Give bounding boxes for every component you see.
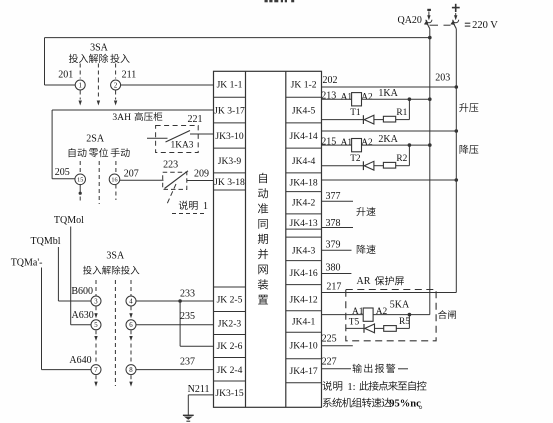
wire 377 stub <box>322 200 354 202</box>
relay coil 5KA <box>363 308 373 321</box>
contact circle 5 <box>91 320 101 330</box>
switch QA20 pole 2 <box>450 4 459 29</box>
terminal pin JK1-2 <box>291 80 317 91</box>
svg-text:1KA: 1KA <box>378 88 398 99</box>
note 1 label 说明 1 <box>172 201 208 214</box>
net label TQMa'- <box>11 257 43 268</box>
wire cabinet top edge to JK3-17 <box>52 109 213 111</box>
2SA linkage dashed lines <box>80 161 116 204</box>
ground <box>183 415 194 421</box>
wire 215 JK4-4 to coil 2KA <box>322 144 352 146</box>
contact circle 2 <box>111 80 121 90</box>
svg-text:JK4-3: JK4-3 <box>292 245 316 256</box>
svg-text:JK2-3: JK2-3 <box>218 319 242 330</box>
label 1KA <box>378 88 398 99</box>
svg-text:235: 235 <box>180 311 195 322</box>
diode T1 label <box>350 108 361 118</box>
wire diode T5 to resistor R5 <box>375 327 384 329</box>
wire 201 from top bus to contact 1 <box>45 38 76 85</box>
label 201 <box>58 70 73 81</box>
svg-text:JK3-15: JK3-15 <box>215 388 243 399</box>
wire 225 stub <box>322 345 353 347</box>
contact circle 1 <box>75 80 85 90</box>
svg-text:221: 221 <box>188 114 203 125</box>
terminal pin JK4-2 <box>292 198 316 209</box>
svg-text:379: 379 <box>326 240 341 251</box>
svg-text:N211: N211 <box>188 384 210 395</box>
bus 203 vertical <box>429 29 431 315</box>
svg-text:3AH: 3AH <box>112 112 131 123</box>
wire 380 stub <box>322 273 352 275</box>
wire diode T2 to resistor R2 <box>374 165 384 167</box>
pin label A2 of 2KA <box>361 138 373 148</box>
svg-text:217: 217 <box>326 282 341 293</box>
svg-text:7: 7 <box>94 367 98 374</box>
svg-text:JK4-14: JK4-14 <box>289 131 317 142</box>
wire cabinet left edge down <box>51 110 53 179</box>
label 2KA <box>378 134 398 145</box>
note line 2 系统机组转速达95%nc <box>323 398 422 410</box>
3SA lower arrows left <box>94 313 97 386</box>
2SA contact 15 stub and junction <box>79 184 82 203</box>
pin label A1 of 1KA <box>341 92 353 102</box>
svg-text:215: 215 <box>321 136 336 147</box>
3SA lower linkage dashed right <box>130 280 132 382</box>
contact circle 3 <box>91 296 101 306</box>
contact 1KA3 label <box>171 141 194 151</box>
svg-text:4: 4 <box>129 298 133 305</box>
label 降压 <box>460 145 479 154</box>
contact 1KA3 dashed enclosure <box>156 126 199 153</box>
terminal pin JK3-18 <box>214 177 245 188</box>
left terminal column dividers <box>214 97 246 381</box>
wire TQMol to contact 5 <box>71 227 91 325</box>
terminal pin JK4-10 <box>289 341 317 352</box>
junction JK4-18 right bus <box>455 178 459 182</box>
svg-text:JK4-12: JK4-12 <box>289 294 317 305</box>
svg-text:1: 1 <box>203 201 208 212</box>
label 降速 <box>357 245 376 254</box>
wire 202 JK1-2 to right bus <box>322 86 457 88</box>
3SA lower positions label 投入解除投入 <box>83 266 139 275</box>
svg-text:3SA: 3SA <box>106 250 125 261</box>
svg-text:JK 2-6: JK 2-6 <box>217 341 243 352</box>
terminal pin JK2-6 <box>217 341 243 352</box>
wire 209 contact to JK3-18 <box>187 180 214 182</box>
contact circle 16 <box>109 174 120 185</box>
supply label 220 V <box>465 20 498 31</box>
svg-text:A2: A2 <box>376 307 388 317</box>
svg-text:R1: R1 <box>396 108 407 118</box>
wire coil 1KA to bus 203 <box>362 98 430 100</box>
switch QA20 label <box>397 15 421 26</box>
contact 1KA3 lead in <box>147 137 168 139</box>
svg-text:JK4-17: JK4-17 <box>289 366 317 377</box>
svg-text:T2: T2 <box>350 154 361 164</box>
svg-text:JK 3-18: JK 3-18 <box>214 177 245 188</box>
cut-off title fragment <box>265 0 295 2</box>
3SA lower linkage dashed left <box>95 280 97 382</box>
pin label A2 of 1KA <box>361 92 373 102</box>
wire R2 riser to coil output <box>396 145 410 166</box>
label 升压 <box>459 103 478 112</box>
terminal pin JK3-10 <box>215 131 243 142</box>
diode T5 label <box>349 318 360 328</box>
resistor R5 <box>384 326 397 332</box>
3SA positions label 投入解除投入 <box>69 54 130 63</box>
net label TQMbl <box>31 236 61 247</box>
wire coil 2KA to bus 203 <box>362 144 430 146</box>
svg-text:95%nc: 95%nc <box>389 399 421 410</box>
svg-text:1: 1 <box>78 82 81 89</box>
resistor R1 <box>383 116 395 122</box>
junction on wire 233 <box>178 299 182 303</box>
pin label A2 of 5KA <box>376 307 388 317</box>
net label TQMol <box>54 215 84 226</box>
svg-text:211: 211 <box>122 70 137 81</box>
diode T2 <box>363 161 374 170</box>
svg-text:225: 225 <box>322 334 337 345</box>
switch QA20 pole 1 <box>424 9 432 29</box>
contact circle 8 <box>126 365 136 375</box>
wire 213 JK4-5 to coil 1KA <box>322 98 352 100</box>
wire 205 to contact 15 <box>52 178 75 180</box>
svg-text:223: 223 <box>163 160 178 171</box>
svg-text:JK4-10: JK4-10 <box>289 341 317 352</box>
label 377 <box>326 191 341 202</box>
diode T2 label <box>350 154 361 164</box>
wire N211 JK3-15 to ground <box>188 395 213 415</box>
svg-text:1:: 1: <box>347 382 355 393</box>
wire snubber 5 left <box>346 327 364 329</box>
label 221 <box>188 114 203 125</box>
2SA positions label 自动零位手动 <box>69 148 130 157</box>
label 217 <box>326 282 341 293</box>
svg-text:A1: A1 <box>341 138 353 148</box>
label 203 <box>435 72 450 83</box>
terminal pin JK3-15 <box>215 388 243 399</box>
diode T1 <box>363 115 374 124</box>
svg-text:JK4-2: JK4-2 <box>292 198 316 209</box>
svg-text:JK 2-4: JK 2-4 <box>217 365 243 376</box>
svg-text:203: 203 <box>435 72 450 83</box>
terminal pin JK4-14 <box>289 131 317 142</box>
wire R5 riser to coil output <box>396 315 409 329</box>
svg-text:237: 237 <box>180 356 195 367</box>
junction snubber 2 riser <box>408 143 412 147</box>
label 205 <box>55 167 70 178</box>
junction JK4-14 right bus <box>455 129 459 133</box>
wire JK4-1 to coil 5KA <box>322 314 364 316</box>
wire diode T1 to resistor R1 <box>374 119 384 121</box>
svg-text:JK4-18: JK4-18 <box>289 178 317 189</box>
pin label A1 of 5KA <box>352 307 364 317</box>
svg-text:TQMol: TQMol <box>54 215 84 226</box>
svg-text:JK3-9: JK3-9 <box>218 156 242 167</box>
svg-text:JK 1-2: JK 1-2 <box>291 80 317 91</box>
label 378 <box>326 218 341 229</box>
terminal pin JK3-9 <box>218 156 242 167</box>
wire coil 5KA to bus 203 end <box>373 314 430 316</box>
label 5KA <box>390 299 410 310</box>
synchronizer device block 自动准同期并网装置 U1 <box>214 71 322 407</box>
svg-text:15: 15 <box>77 176 83 183</box>
note line 1 说明1此接点来至自控 <box>322 381 426 393</box>
wire 233 contact 4 to JK2-5 <box>136 300 214 302</box>
terminal pin JK4-5 <box>292 105 316 116</box>
wire 227 to alarm <box>322 368 352 370</box>
svg-text:16: 16 <box>111 176 117 183</box>
3SA linkage dashed lines <box>80 64 115 100</box>
svg-text:2: 2 <box>114 82 118 89</box>
contact 223 actuator dashed link <box>167 184 176 204</box>
resistor R5 label <box>399 317 410 327</box>
wire 235 contact 6 to JK2-3 <box>136 324 214 326</box>
label 213 <box>321 90 336 101</box>
wire JK4-18 to right bus <box>322 179 457 181</box>
svg-text:A1: A1 <box>341 92 353 102</box>
label 207 <box>124 168 139 179</box>
svg-text:378: 378 <box>326 218 341 229</box>
svg-text:207: 207 <box>124 168 139 179</box>
3SA contact arrows <box>79 101 118 106</box>
svg-text:380: 380 <box>326 262 341 273</box>
net label A630 <box>71 310 93 321</box>
svg-text:JK 1-1: JK 1-1 <box>217 80 243 91</box>
svg-text:209: 209 <box>194 168 209 179</box>
svg-text:JK4-13: JK4-13 <box>289 218 317 229</box>
svg-text:213: 213 <box>321 90 336 101</box>
wire 221 contact 1KA3 to JK3-10 <box>190 133 214 135</box>
svg-text:JK3-10: JK3-10 <box>215 131 243 142</box>
svg-text:8: 8 <box>129 367 133 374</box>
device label 自动准同期并网装置 <box>258 173 268 305</box>
junction snubber 5 riser <box>408 313 412 317</box>
label 211 <box>122 70 137 81</box>
svg-text:R2: R2 <box>396 154 407 164</box>
svg-text:JK4-16: JK4-16 <box>289 268 317 279</box>
junction top bus and bus 203 <box>428 36 432 40</box>
svg-text:205: 205 <box>55 167 70 178</box>
wire branch to JK2-6 <box>180 301 213 346</box>
wire after alarm label <box>398 368 408 370</box>
svg-text:JK4-5: JK4-5 <box>292 105 316 116</box>
terminal pin JK4-12 <box>289 294 317 305</box>
terminal pin JK4-16 <box>289 268 317 279</box>
wire R1 riser to coil output <box>396 99 410 119</box>
contact 223 blade <box>165 171 189 189</box>
net label A640 <box>69 355 91 366</box>
contact 223 dashed enclosure <box>163 172 187 189</box>
svg-text:377: 377 <box>326 191 341 202</box>
label 升速 <box>356 207 375 216</box>
svg-text:A2: A2 <box>361 92 373 102</box>
svg-text:QA20: QA20 <box>397 15 421 26</box>
svg-text:TQMa'-: TQMa'- <box>11 257 43 268</box>
svg-text:2SA: 2SA <box>86 133 105 144</box>
contact 1KA3 blade <box>166 131 191 143</box>
cabinet label 3AH 高压柜 <box>112 112 162 123</box>
switch QA20 linkage dashed <box>430 24 451 26</box>
switch 2SA label <box>86 133 105 144</box>
svg-text:220 V: 220 V <box>472 20 498 31</box>
relay coil 1KA <box>352 93 362 106</box>
label 输出报警 <box>353 364 396 373</box>
junction snubber 1 riser <box>408 97 412 101</box>
switch 3SA lower label <box>106 250 125 261</box>
label 215 <box>321 136 336 147</box>
resistor R1 label <box>396 108 407 118</box>
svg-text:T1: T1 <box>350 108 361 118</box>
svg-text:A1: A1 <box>352 307 364 317</box>
wire 217 JK4-12 to right bus <box>322 292 457 294</box>
terminal pin JK2-3 <box>218 319 242 330</box>
svg-text:JK4-4: JK4-4 <box>292 156 316 167</box>
svg-text:AR: AR <box>357 276 371 287</box>
svg-text:227: 227 <box>322 357 337 368</box>
wire TQMbl to contact 3 <box>58 247 91 301</box>
svg-text:5KA: 5KA <box>390 299 410 310</box>
contact circle 7 <box>91 365 101 375</box>
wire TQMa' to contact 7 <box>42 268 92 370</box>
svg-text:2KA: 2KA <box>378 134 398 145</box>
junction wire 202 right bus <box>455 85 459 89</box>
label 225 <box>322 334 337 345</box>
pin label A1 of 2KA <box>341 138 353 148</box>
AR panel dashed enclosure <box>346 290 436 341</box>
label 202 <box>323 75 338 86</box>
wire 211 contact 2 to JK1-1 <box>121 84 214 86</box>
wire 207 contact 16 to contact 223 <box>120 179 164 181</box>
junction 2KA output bus 203 <box>428 143 432 147</box>
svg-text:A630: A630 <box>71 310 93 321</box>
contact circle 4 <box>126 296 136 306</box>
svg-text:5: 5 <box>94 322 98 329</box>
terminal pin JK3-17 <box>214 105 245 116</box>
wire 379 stub <box>322 249 352 251</box>
svg-text:JK 3-17: JK 3-17 <box>214 105 245 116</box>
svg-text:6: 6 <box>129 322 133 329</box>
svg-text:202: 202 <box>323 75 338 86</box>
svg-text:3: 3 <box>94 298 98 305</box>
svg-text:A2: A2 <box>361 138 373 148</box>
label AR 保护屏 <box>357 276 404 287</box>
terminal pin JK4-3 <box>292 245 316 256</box>
net label B600 <box>71 286 93 297</box>
wire snubber 2 left <box>322 165 364 167</box>
terminal pin JK4-1 <box>292 317 316 328</box>
svg-text:233: 233 <box>180 289 195 300</box>
label 380 <box>326 262 341 273</box>
svg-text:B600: B600 <box>71 286 93 297</box>
resistor R2 label <box>396 154 407 164</box>
wire JK4-14 to right bus <box>322 130 457 132</box>
junction 1KA output bus 203 <box>428 97 432 101</box>
label 209 <box>194 168 209 179</box>
label 233 <box>180 289 195 300</box>
terminal pin JK1-1 <box>217 80 243 91</box>
contact circle 15 <box>75 174 86 185</box>
svg-text:JK 2-5: JK 2-5 <box>217 295 243 306</box>
svg-text:201: 201 <box>58 70 73 81</box>
svg-text:1KA3: 1KA3 <box>171 141 194 151</box>
terminal pin JK2-5 <box>217 295 243 306</box>
label 227 <box>322 357 337 368</box>
switch 3SA label <box>90 43 109 54</box>
terminal pin JK4-13 <box>289 218 317 229</box>
terminal pin JK2-4 <box>217 365 243 376</box>
label 237 <box>180 356 195 367</box>
wire 237 contact 8 to JK2-4 <box>136 369 214 371</box>
svg-text:A640: A640 <box>69 355 91 366</box>
svg-text:JK4-1: JK4-1 <box>292 317 316 328</box>
terminal pin JK4-18 <box>289 178 317 189</box>
bus right vertical from QA20 pole 2 <box>455 29 457 293</box>
svg-text:T5: T5 <box>349 318 360 328</box>
label N211 <box>188 384 210 395</box>
wire top bus from 3SA loop to QA20 <box>45 37 430 39</box>
contact circle 6 <box>126 320 136 330</box>
resistor R2 <box>383 162 395 168</box>
svg-text:R5: R5 <box>399 317 410 327</box>
label 223 <box>163 160 178 171</box>
label 合闸 <box>438 310 456 319</box>
right terminal column dividers <box>286 97 322 383</box>
terminal pin JK4-4 <box>292 156 316 167</box>
wire 378 stub <box>322 227 354 229</box>
3SA lower linkage dashed middle <box>114 280 116 386</box>
3SA lower arrows right <box>129 313 132 386</box>
terminal pin JK4-17 <box>289 366 317 377</box>
diode T5 <box>364 324 375 333</box>
label 235 <box>180 311 195 322</box>
wire snubber 1 left <box>322 119 364 121</box>
relay coil 2KA <box>352 139 362 152</box>
svg-text:TQMbl: TQMbl <box>31 236 61 247</box>
label 379 <box>326 240 341 251</box>
svg-text:3SA: 3SA <box>90 43 109 54</box>
